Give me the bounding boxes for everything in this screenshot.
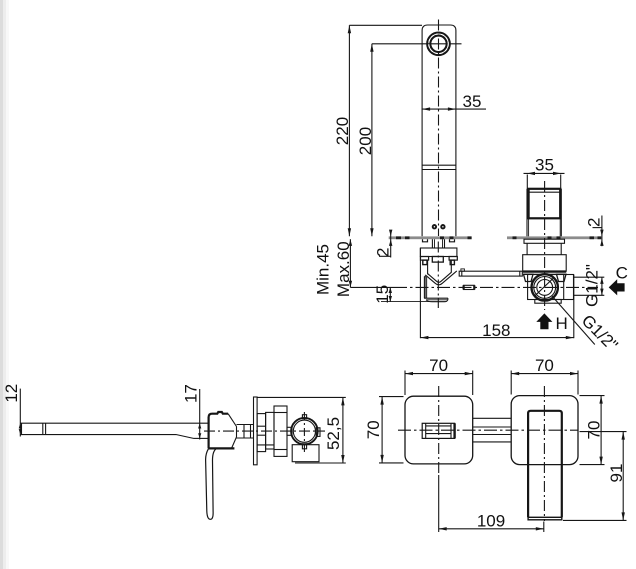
spout elbow funnel right wall xyxy=(450,260,452,272)
svg-text:35: 35 xyxy=(463,92,482,111)
spout column centerline xyxy=(438,20,440,237)
aerator inner circle xyxy=(430,36,446,52)
valve housing box xyxy=(523,255,567,272)
dimension 2 (right wall plate thickness) xyxy=(585,216,604,247)
svg-text:70: 70 xyxy=(585,421,604,440)
dimension 91 xyxy=(563,432,627,521)
supply bar left cap xyxy=(461,271,463,276)
dimension 158 xyxy=(420,248,573,340)
svg-text:220: 220 xyxy=(333,117,352,145)
dimension 200 xyxy=(356,44,462,237)
handle pivot block xyxy=(209,412,229,448)
cartridge block 2 xyxy=(266,412,274,449)
face view horizontal centerline xyxy=(398,429,578,431)
main horizontal centerline xyxy=(394,286,598,288)
svg-text:Min.45: Min.45 xyxy=(313,244,332,295)
spout stem below wall xyxy=(431,239,433,248)
dimension 35 (spout width) xyxy=(422,92,487,111)
spout assembly centerline xyxy=(437,242,439,309)
left plate vertical centerline xyxy=(438,386,440,474)
svg-text:35: 35 xyxy=(535,155,554,174)
wall band dark dashes xyxy=(396,236,601,239)
valve circle diagonal xyxy=(535,278,554,296)
lower supply box xyxy=(292,445,319,462)
arrow H (hot inlet) xyxy=(536,313,552,329)
svg-text:70: 70 xyxy=(364,420,383,439)
svg-text:200: 200 xyxy=(356,127,375,155)
dimension 52,5 xyxy=(258,397,346,463)
svg-text:12: 12 xyxy=(2,384,21,403)
svg-text:91: 91 xyxy=(607,464,626,483)
handle lever xyxy=(206,448,217,519)
wall section band right xyxy=(507,236,601,239)
valve clip tab left xyxy=(524,274,534,281)
svg-text:70: 70 xyxy=(429,356,448,375)
escutcheon side profile xyxy=(254,397,258,465)
spout tube end cap xyxy=(42,423,44,434)
pipe end circle inner xyxy=(293,420,315,442)
dimension 12 xyxy=(2,384,22,437)
valve body block xyxy=(528,275,574,300)
spout elbow funnel inner contour xyxy=(428,272,452,282)
left trim plate xyxy=(405,396,473,464)
valve bottom pad xyxy=(535,300,561,304)
svg-text:G1/2": G1/2" xyxy=(583,264,602,307)
svg-text:52,5: 52,5 xyxy=(324,417,343,450)
valve housing thick bottom xyxy=(523,270,567,272)
handle block taper neck xyxy=(228,414,236,427)
svg-text:2: 2 xyxy=(373,248,392,257)
side view main centerline xyxy=(204,430,325,432)
cartridge lower inner lines xyxy=(528,218,530,236)
cartridge centerline xyxy=(544,181,546,310)
spout flange step right xyxy=(449,257,457,261)
dimension 70 left side xyxy=(364,397,403,463)
spout elbow funnel outer contour xyxy=(425,271,457,285)
cartridge cap line xyxy=(529,191,561,193)
wall section band left xyxy=(389,236,472,239)
spout elbow bottom lip xyxy=(426,300,448,302)
pipe end circle outer xyxy=(291,418,318,445)
dimension 17 xyxy=(182,384,202,439)
cartridge thick box xyxy=(529,189,561,219)
spout escutcheon clips xyxy=(423,239,428,242)
supply bar right cap xyxy=(519,271,521,276)
svg-text:17: 17 xyxy=(182,384,201,403)
slot right thick edge xyxy=(453,423,455,438)
dimension 15 xyxy=(373,285,446,304)
svg-text:2: 2 xyxy=(585,218,604,227)
valve body inner edge xyxy=(563,275,565,300)
spout flange bolt left xyxy=(423,260,427,265)
svg-text:C: C xyxy=(616,263,628,282)
connecting pipe between plates xyxy=(473,417,512,419)
right plate vertical centerline xyxy=(543,386,545,521)
pipe bottom stub xyxy=(302,444,306,449)
dimension 70 right side xyxy=(580,396,605,465)
dimension 70 top right xyxy=(511,356,578,395)
side view circle centerline xyxy=(303,412,305,453)
aerator outer circle xyxy=(427,33,450,56)
spout elbow bottom xyxy=(424,297,448,299)
svg-text:H: H xyxy=(556,314,568,333)
spout flange xyxy=(420,248,457,257)
pipe right tab xyxy=(316,428,320,437)
dimension 109 xyxy=(439,475,544,532)
slot inner verticals xyxy=(425,423,427,438)
cartridge tower walls xyxy=(526,189,528,237)
supply bar between bodies xyxy=(459,271,522,276)
G1/2 leader line xyxy=(552,296,595,345)
dimension Min.45 Max.60 xyxy=(313,239,394,297)
spout flange center tab xyxy=(432,257,443,263)
valve body lip below wall xyxy=(524,239,565,243)
small union fitting on centerline xyxy=(464,285,475,289)
valve clip tab right xyxy=(557,274,567,281)
arrow C (cold inlet) xyxy=(609,279,625,295)
dimension 2 (left wall plate thickness) xyxy=(373,230,392,258)
dimension 70 top left xyxy=(405,356,473,395)
svg-text:109: 109 xyxy=(477,511,505,530)
dimension 220 xyxy=(333,25,422,236)
handle face view xyxy=(528,411,562,518)
right trim plate xyxy=(511,396,578,465)
dimension 35 (cartridge width) xyxy=(524,155,565,175)
svg-text:70: 70 xyxy=(535,356,554,375)
aerator thread dashed circle xyxy=(429,34,449,54)
spout elbow outer wall pointer xyxy=(424,275,427,278)
bar end notch xyxy=(461,269,465,271)
svg-text:15: 15 xyxy=(373,285,392,304)
handle bottom cap xyxy=(528,517,562,520)
spout flange bolt right xyxy=(450,260,454,265)
valve circle mid xyxy=(534,277,556,299)
connector stub xyxy=(287,427,292,435)
valve circle inner xyxy=(537,280,553,296)
spout column body xyxy=(422,25,456,236)
spout outlet slot outer xyxy=(422,423,454,438)
neck to escutcheon xyxy=(237,424,254,426)
valve cartridge tower extension lines xyxy=(526,175,528,190)
spout column joint double line xyxy=(422,164,456,166)
scan artifact: light gray left edge xyxy=(0,0,3,569)
valve bracket line xyxy=(523,273,566,275)
dimension G1/2 outlet xyxy=(574,264,604,307)
cartridge block 1 xyxy=(257,414,266,452)
mounting bracket side xyxy=(274,406,287,456)
spout flange step left xyxy=(421,257,429,261)
slot inner horizontals xyxy=(426,425,451,427)
spout elbow left wall xyxy=(423,276,425,298)
svg-text:158: 158 xyxy=(482,321,510,340)
svg-text:Max.60: Max.60 xyxy=(334,241,353,297)
spout elbow funnel left wall xyxy=(427,260,429,274)
valve neck below wall xyxy=(526,243,528,254)
pipe top stub xyxy=(302,415,306,419)
spout fixing screws xyxy=(433,225,436,228)
valve circle outer xyxy=(532,274,558,300)
spout tube side view xyxy=(20,422,208,424)
